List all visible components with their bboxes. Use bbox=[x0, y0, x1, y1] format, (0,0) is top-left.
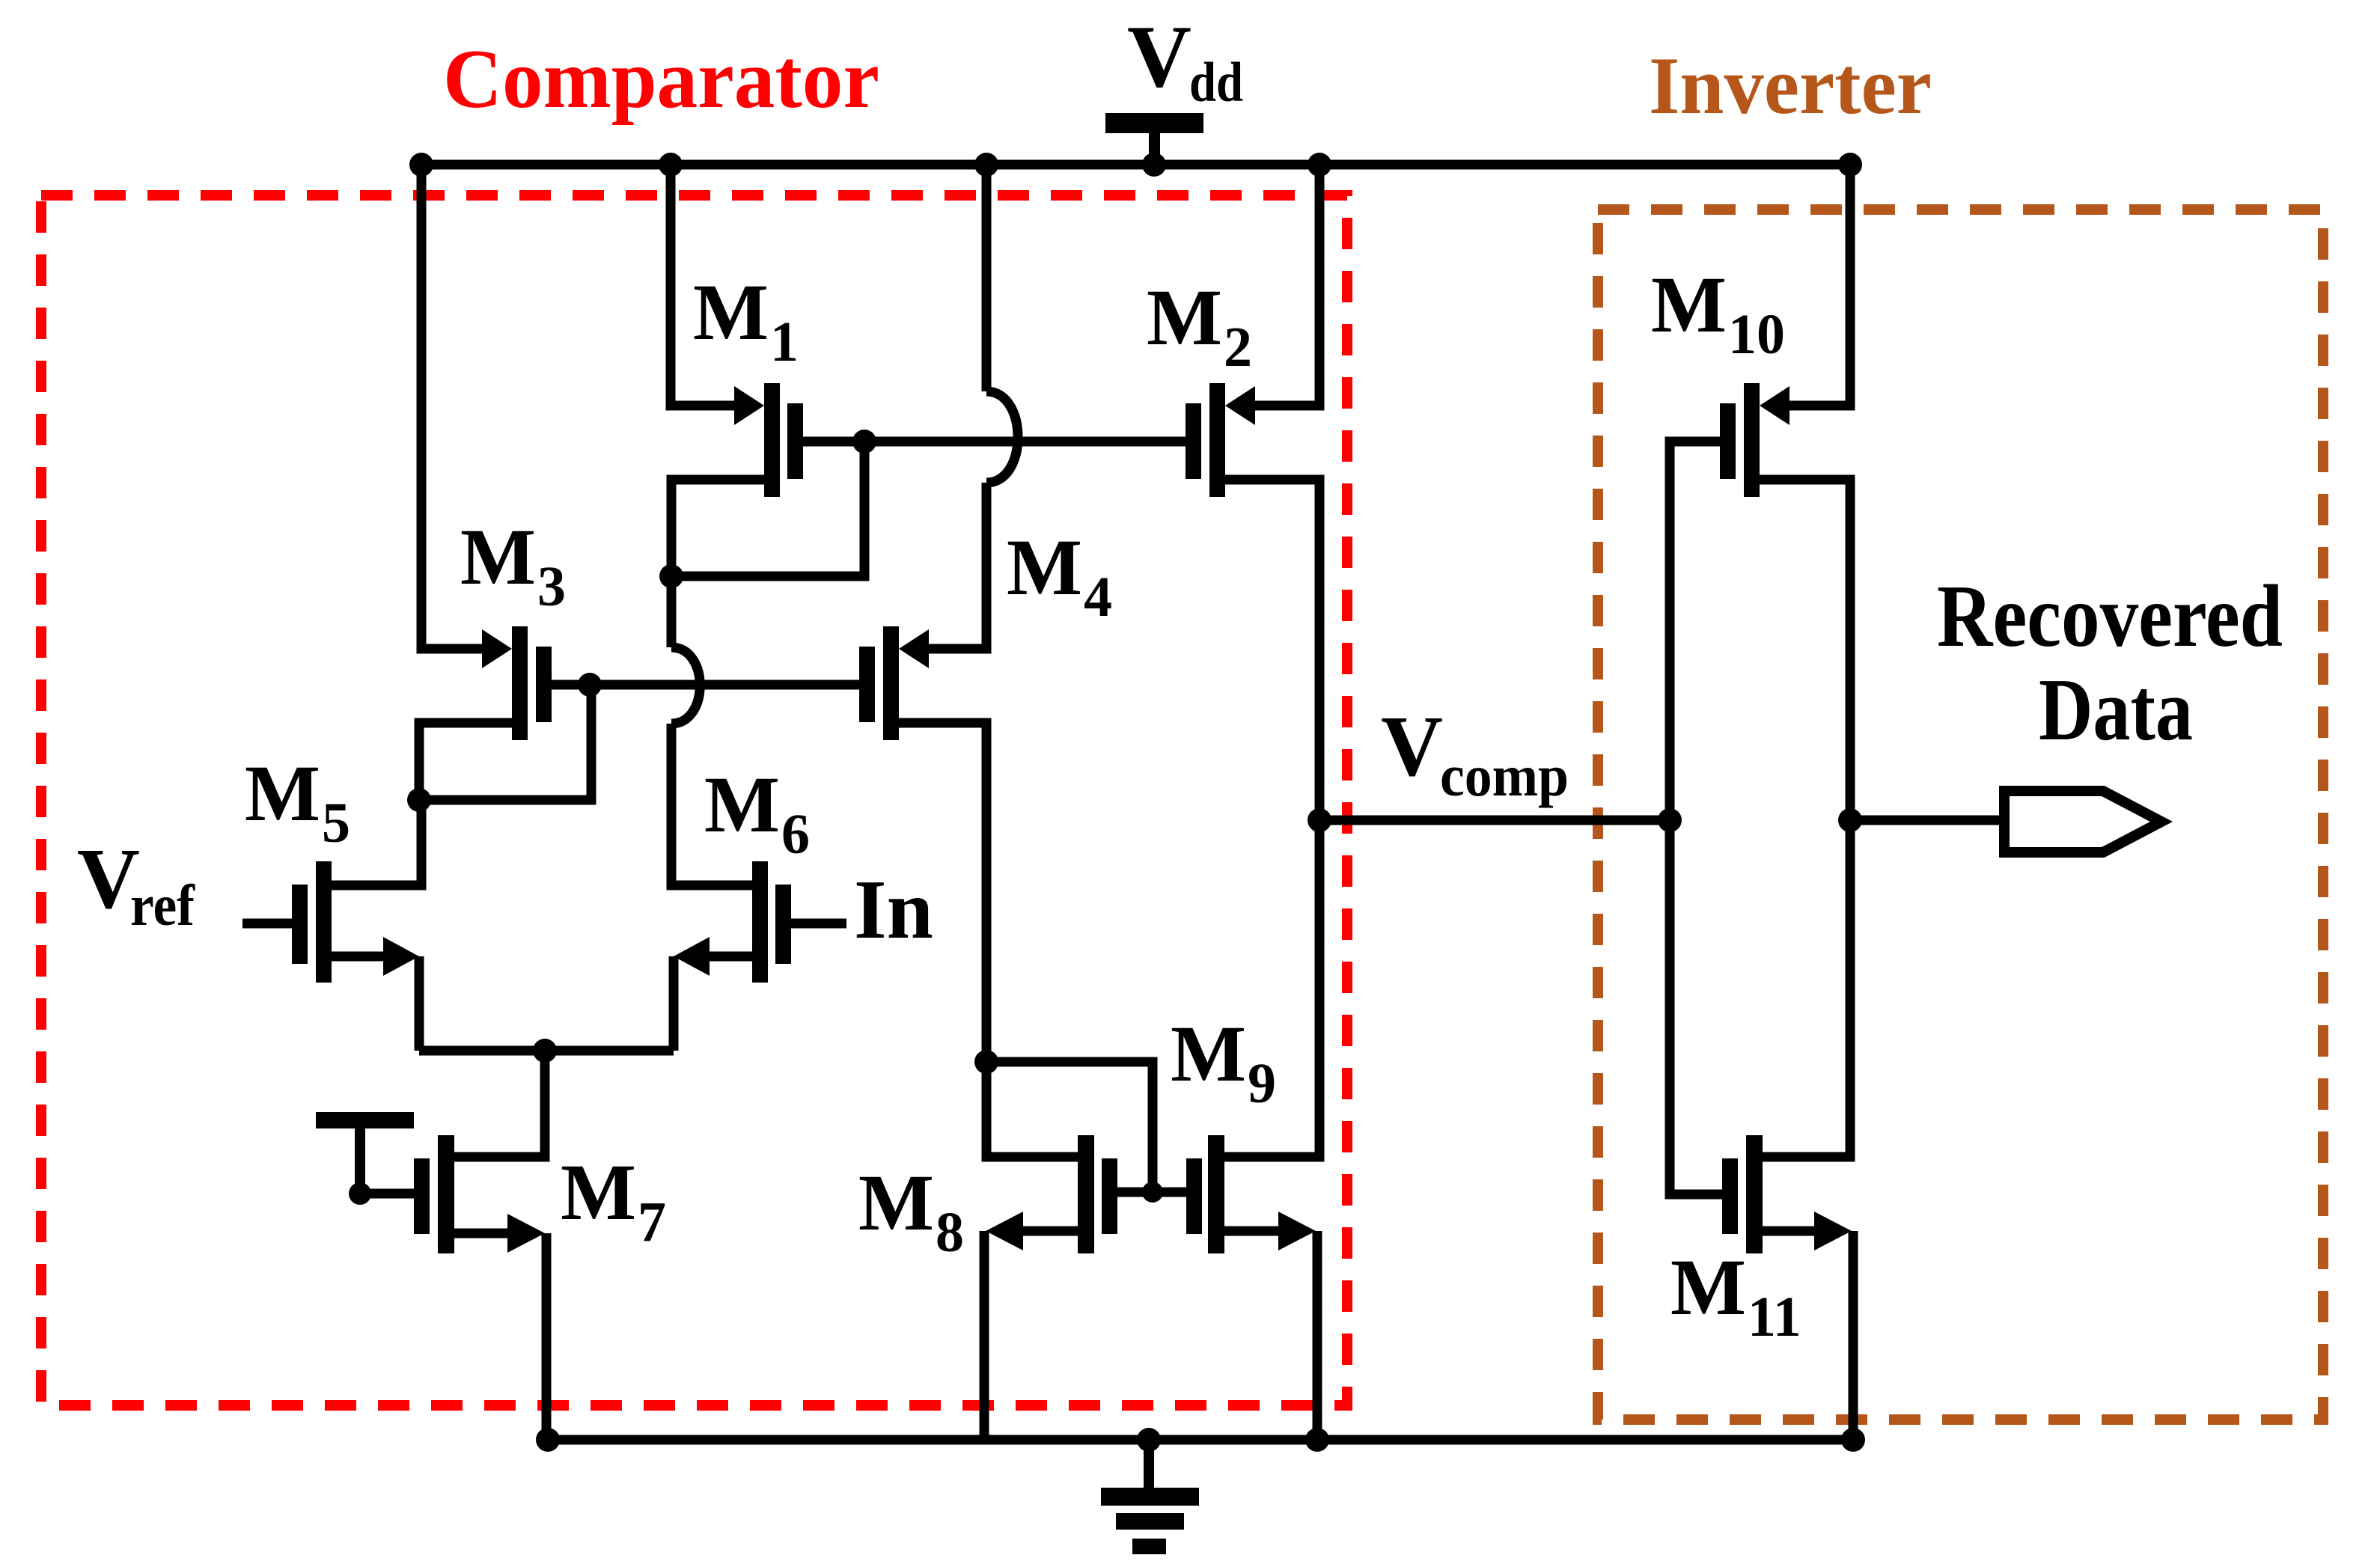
svg-text:Comparator: Comparator bbox=[443, 33, 879, 126]
svg-text:Data: Data bbox=[2039, 660, 2193, 759]
svg-text:4: 4 bbox=[1084, 566, 1112, 629]
svg-text:In: In bbox=[854, 864, 933, 956]
svg-text:6: 6 bbox=[781, 803, 810, 866]
svg-text:7: 7 bbox=[638, 1191, 666, 1253]
node rail-M9 junction bbox=[1305, 1428, 1329, 1452]
wire hop of M4 feed over M1-M2 gate wire bbox=[986, 391, 1018, 483]
wire M4 drain to M8-M9 gates bbox=[986, 1062, 1153, 1192]
wire rail to M3 source bbox=[421, 165, 486, 649]
transistor M7 (NMOS) bbox=[360, 1051, 546, 1440]
node rail-M1 junction bbox=[659, 153, 683, 177]
transistor M5 (NMOS) bbox=[242, 800, 421, 1051]
svg-text:comp: comp bbox=[1440, 743, 1569, 808]
svg-text:M: M bbox=[1147, 274, 1222, 362]
svg-text:2: 2 bbox=[1224, 316, 1252, 379]
transistor M6 (NMOS) bbox=[674, 861, 846, 1051]
svg-text:M: M bbox=[1007, 524, 1082, 612]
transistor M11 (NMOS) bbox=[1722, 1135, 1853, 1440]
wire inverter input down to M11 gate bbox=[1670, 820, 1722, 1194]
wire rail to M2 source bbox=[1251, 165, 1319, 406]
wire M3 gate to M4 gate bbox=[590, 680, 859, 690]
node Vcomp junction bbox=[1308, 808, 1331, 832]
svg-text:10: 10 bbox=[1728, 303, 1785, 366]
svg-text:V: V bbox=[1127, 7, 1191, 106]
wire Vcomp bbox=[1319, 816, 1670, 825]
wire output node down to M11 drain bbox=[1763, 820, 1850, 1157]
svg-text:M: M bbox=[704, 761, 780, 849]
wire bottom ground rail bbox=[548, 1435, 1853, 1445]
svg-text:3: 3 bbox=[537, 555, 566, 618]
box Comparator (red dashed) bbox=[41, 195, 1347, 1405]
wire M1 drain down to M6 drain (upper part) bbox=[667, 576, 677, 647]
svg-text:M: M bbox=[1670, 1244, 1746, 1332]
wire M1 gate to M2 gate bbox=[864, 437, 1186, 447]
svg-text:dd: dd bbox=[1189, 52, 1243, 114]
transistor M10 (PMOS) bbox=[1670, 383, 1850, 820]
node rail-ground junction bbox=[1137, 1428, 1161, 1452]
transistor M1 (PMOS) bbox=[671, 383, 864, 576]
wire M1 drain down to M6 drain (lower part) bbox=[671, 724, 752, 885]
wire rail to M4 source (lower part after hop) bbox=[925, 483, 986, 649]
wire differential pair tail bbox=[419, 1046, 674, 1056]
svg-text:M: M bbox=[1651, 261, 1727, 349]
node inverter output junction bbox=[1838, 808, 1862, 832]
svg-text:M: M bbox=[561, 1149, 636, 1237]
node rail-Vdd junction bbox=[1142, 153, 1166, 177]
node M3 drain junction bbox=[407, 788, 431, 812]
node rail-M7 junction bbox=[536, 1428, 560, 1452]
transistor M2 (PMOS) bbox=[1186, 383, 1319, 820]
node rail-M10 junction bbox=[1838, 153, 1862, 177]
node M8-M9 gate junction bbox=[1142, 1182, 1163, 1203]
wire Vdd top rail bbox=[421, 160, 1850, 170]
ground symbol bbox=[1101, 1440, 1199, 1554]
svg-text:11: 11 bbox=[1748, 1286, 1801, 1348]
svg-text:Recovered: Recovered bbox=[1937, 566, 2283, 665]
svg-text:1: 1 bbox=[770, 311, 799, 373]
svg-text:9: 9 bbox=[1248, 1052, 1276, 1115]
output pointer Recovered Data bbox=[2004, 791, 2161, 852]
wire output to pointer bbox=[1850, 816, 2004, 825]
node rail-M4 junction bbox=[974, 153, 998, 177]
wire hop of M1-M6 wire over M3-M4 gate wire bbox=[671, 647, 700, 724]
node M1 gate-drain junction bbox=[852, 430, 876, 453]
svg-text:M: M bbox=[858, 1159, 934, 1247]
node tail junction bbox=[533, 1039, 557, 1063]
node M3 gate junction bbox=[578, 673, 602, 697]
node M4 drain junction bbox=[974, 1050, 998, 1074]
node M1 drain junction bbox=[659, 564, 683, 588]
wire M4 drain down to M8 drain bbox=[986, 1062, 1078, 1157]
svg-text:M: M bbox=[693, 269, 769, 357]
transistor M3 (PMOS) bbox=[419, 626, 591, 800]
node rail-M11 junction bbox=[1841, 1428, 1865, 1452]
svg-text:5: 5 bbox=[322, 792, 350, 855]
svg-text:M: M bbox=[245, 750, 320, 838]
wire rail to M10 source bbox=[1786, 165, 1850, 406]
transistor M8 (NMOS) bbox=[984, 1135, 1153, 1440]
wire rail to M1 source bbox=[671, 165, 738, 406]
svg-text:ref: ref bbox=[130, 873, 195, 938]
box Inverter (brown dashed) bbox=[1598, 210, 2323, 1420]
svg-text:8: 8 bbox=[936, 1201, 964, 1264]
bias tee of M7 gate bbox=[316, 1112, 414, 1185]
svg-text:V: V bbox=[1381, 699, 1443, 794]
node rail-M2 junction bbox=[1308, 153, 1331, 177]
svg-text:Inverter: Inverter bbox=[1649, 40, 1932, 131]
transistor M4 (PMOS) bbox=[859, 626, 986, 1062]
node M7 gate bias junction bbox=[349, 1182, 371, 1205]
svg-text:M: M bbox=[1171, 1010, 1246, 1099]
transistor M9 (NMOS) bbox=[1153, 820, 1319, 1440]
wire rail to M4 source (upper part before hop) bbox=[982, 165, 992, 391]
svg-text:M: M bbox=[460, 513, 536, 602]
node rail-M3 junction bbox=[409, 153, 433, 177]
node M10-M11 gate junction bbox=[1658, 808, 1682, 832]
power symbol Vdd bbox=[1105, 113, 1203, 166]
